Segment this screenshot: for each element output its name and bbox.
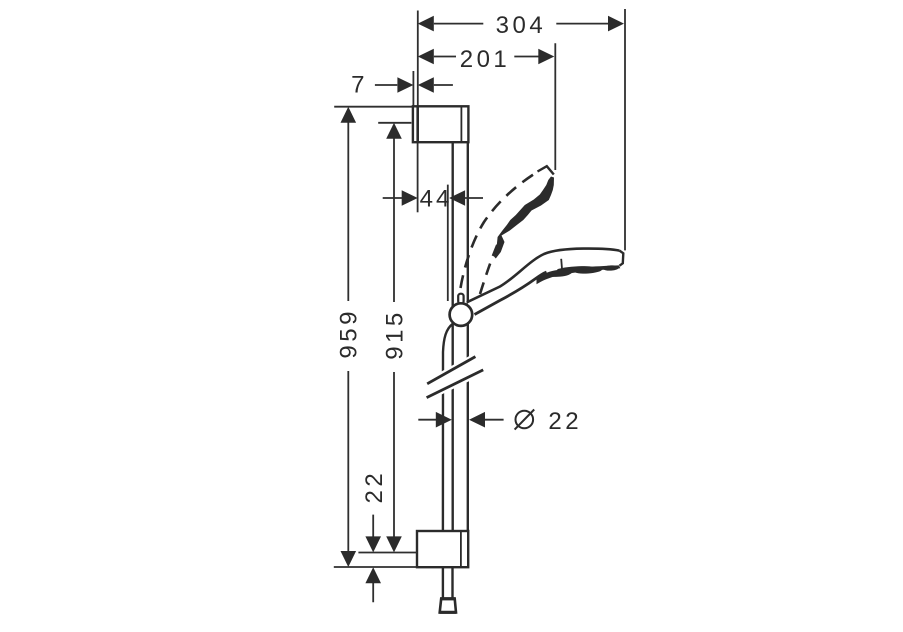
dimension 915 arrows [386, 123, 402, 139]
rail right edge [467, 141, 469, 532]
top holder box [413, 106, 469, 142]
hand shower raised position: left dashed outline [461, 172, 539, 289]
svg-text:959: 959 [336, 308, 363, 359]
wire: extension line E1 (left of 304/201) [417, 11, 419, 107]
dimension 959 arrows [341, 107, 357, 123]
dimension dia22 arrows [436, 412, 452, 428]
dimension 915 vertical line [393, 139, 395, 538]
slider knob [458, 294, 463, 304]
dimension 7 arrows [397, 77, 413, 93]
handle and head upper edge [467, 249, 620, 303]
break diagonal line upper [427, 357, 475, 384]
rail left edge [452, 141, 454, 532]
dimension 304 arrows [418, 16, 434, 32]
svg-text:304: 304 [496, 12, 547, 39]
dimension 44 arrows [402, 190, 418, 206]
svg-text:7: 7 [351, 72, 364, 99]
hand shower raised position: spray face dark band [494, 177, 554, 259]
dimension 201 arrows [418, 49, 434, 65]
handle lower edge [475, 272, 547, 315]
break diagonal line lower [427, 370, 484, 398]
svg-text:201: 201 [460, 46, 511, 73]
hose end cone [440, 599, 456, 613]
wire: top extension line H1 [334, 106, 413, 108]
wire: extension line E5 (right of 44) [447, 185, 449, 301]
bottom holder inner line [460, 532, 462, 567]
label dia 22 [516, 411, 534, 429]
svg-text:22: 22 [361, 470, 388, 504]
head right cap [620, 251, 624, 266]
slider circle [450, 303, 473, 326]
svg-text:915: 915 [381, 309, 408, 360]
wire: extension line E4 (right of 201) [554, 43, 556, 170]
wire: bottom extension line H3 [358, 552, 417, 554]
hand shower handle (hanging) white body [467, 249, 624, 315]
dimension 201 line [434, 56, 539, 58]
dimension dia22 line [418, 419, 503, 421]
dimension 44 line [383, 197, 483, 199]
top holder wall plate line [416, 106, 419, 142]
dimension 22 arrows [365, 536, 381, 552]
bottom holder box [417, 531, 468, 567]
wire: bottom extension line H4 [334, 566, 418, 568]
wire: extension line E3 (right of 304) [624, 9, 626, 250]
head seam tick [560, 259, 563, 269]
top holder inner line [460, 107, 462, 142]
dimension 304 line [434, 23, 608, 25]
wire: top extension line H2 [378, 122, 411, 124]
wire: extension line E6 (left of 44) [417, 143, 419, 212]
svg-text:22: 22 [548, 408, 582, 435]
wire: extension line E2 (left side of 7 gap) [412, 71, 414, 106]
hose below holder right [451, 567, 453, 598]
break gap erase band [426, 352, 484, 402]
hose below holder left [442, 567, 444, 598]
head spray face dark band [537, 265, 621, 284]
svg-text:44: 44 [420, 186, 453, 213]
dimension 22 vertical line [372, 515, 374, 603]
hand shower raised position: top cap [538, 166, 554, 174]
dimension 7 line [375, 84, 453, 86]
hose from slider down [443, 324, 453, 532]
hand shower raised position: right dashed outline [480, 242, 499, 294]
dimension 959 vertical line [347, 122, 349, 552]
